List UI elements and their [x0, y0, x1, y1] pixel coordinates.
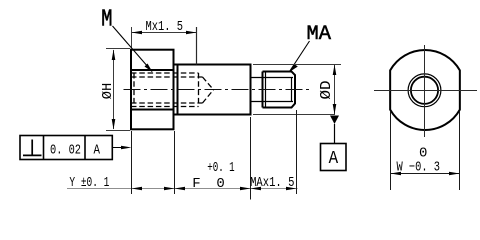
svg-text:ØD: ØD [318, 81, 335, 100]
svg-text:M: M [101, 6, 112, 33]
svg-text:F: F [192, 176, 200, 192]
svg-text:MA: MA [307, 23, 332, 46]
svg-text:+0. 1: +0. 1 [207, 160, 235, 176]
svg-text:0: 0 [216, 176, 224, 192]
svg-text:A: A [94, 143, 101, 159]
svg-text:A: A [329, 149, 339, 169]
svg-text:Y ±0. 1: Y ±0. 1 [69, 175, 109, 191]
svg-text:ØH: ØH [100, 83, 116, 100]
svg-text:0. 02: 0. 02 [50, 143, 81, 159]
svg-text:MAx1. 5: MAx1. 5 [250, 175, 294, 191]
svg-text:Mx1. 5: Mx1. 5 [146, 19, 184, 35]
svg-text:W −0. 3: W −0. 3 [397, 160, 441, 176]
